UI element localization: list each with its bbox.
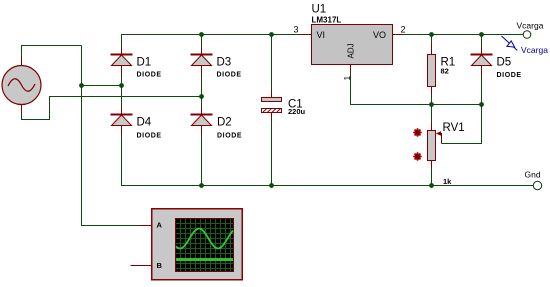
terminal Gnd <box>533 181 541 189</box>
svg-text:D1: D1 <box>137 57 152 69</box>
svg-text:DIODE: DIODE <box>137 72 162 79</box>
node junction (201.5,96.5) bridge right mid <box>199 94 204 99</box>
svg-text:RV1: RV1 <box>443 122 465 134</box>
svg-text:D2: D2 <box>217 117 232 129</box>
svg-text:D5: D5 <box>497 57 512 69</box>
wire: D1 bottom lead green <box>121 76 123 86</box>
svg-text:DIODE: DIODE <box>497 72 522 79</box>
svg-text:A: A <box>157 221 163 230</box>
wire: mid rail from node (81.5,85.5) to bridge left junction (121.5,85.5) <box>82 85 122 87</box>
wire: AC source bottom jog to D3/D2 junction (201.5,96.5) <box>22 97 202 120</box>
svg-text:ADJ: ADJ <box>347 43 356 58</box>
wire: D3 top lead green <box>201 35 203 47</box>
wire: RV1 top lead green <box>431 105 433 123</box>
diode D4 <box>111 107 133 135</box>
wire: C1 top lead green <box>271 35 273 90</box>
wire: R1 bottom lead green <box>431 95 433 105</box>
wire: D5 top lead green <box>481 35 483 47</box>
AC source V1 <box>2 57 41 113</box>
wire: D2 bottom lead green <box>201 135 203 186</box>
svg-text:U1: U1 <box>312 4 327 16</box>
node junction (271.5,185.5) C1 bottom <box>269 183 274 188</box>
node junction (431.5,185.5) RV1 bottom <box>429 183 434 188</box>
wire: top rail y=34.5 from D1 top corner to U1 VI pin <box>122 35 301 47</box>
wire: D3 bottom lead green <box>201 76 203 97</box>
svg-text:LM317L: LM317L <box>312 15 342 24</box>
svg-text:Vcarga: Vcarga <box>517 20 544 30</box>
resistor R1 <box>428 45 436 95</box>
node junction (481.5,104.5) D5 bottom / wiper <box>479 102 484 107</box>
wire: RV1 bottom lead green <box>431 169 433 186</box>
diode D2 <box>191 107 213 135</box>
capacitor C1 <box>262 90 282 121</box>
svg-text:Gnd: Gnd <box>525 170 541 180</box>
wire: bottom ground rail from D4 corner to Gnd terminal <box>122 135 534 186</box>
oscilloscope screen grid <box>176 219 233 271</box>
wire: C1 bottom lead green <box>271 121 273 186</box>
svg-text:VI: VI <box>317 30 326 40</box>
oscilloscope <box>131 209 243 280</box>
node junction (81.5,85.5) <box>79 83 84 88</box>
wire: R1 top lead green <box>431 35 433 45</box>
svg-text:2: 2 <box>401 25 406 35</box>
wire: D5 bottom lead green <box>481 76 483 105</box>
svg-text:D3: D3 <box>217 57 232 69</box>
terminal Vcarga (output) <box>523 31 531 39</box>
wire: ADJ rail from U1 pin1 down and right to D5 bottom <box>351 73 482 105</box>
svg-text:220u: 220u <box>288 107 306 116</box>
diode D1 <box>111 47 133 76</box>
svg-text:Vcarga: Vcarga <box>521 45 548 55</box>
diode D5 <box>471 47 493 76</box>
svg-text:VO: VO <box>373 30 386 40</box>
wire: RV1 wiper return to ADJ rail <box>442 105 482 144</box>
wire: AC source top lead loop to node column x=81.5 <box>22 46 82 58</box>
diode D3 <box>191 47 213 76</box>
svg-text:DIODE: DIODE <box>217 133 242 140</box>
potentiometer RV1 <box>428 123 442 169</box>
node junction (121.5,85.5) bridge left mid <box>119 83 124 88</box>
svg-text:D4: D4 <box>137 117 152 129</box>
pot actuator star upper <box>414 129 421 136</box>
wire: D4 top lead green <box>121 86 123 107</box>
svg-text:3: 3 <box>294 25 299 35</box>
node junction (201.5,34.5) D3 top <box>199 32 204 37</box>
svg-text:DIODE: DIODE <box>217 72 242 79</box>
svg-text:1k: 1k <box>443 177 452 186</box>
wire: vertical from top loop down through node (81.5,85.5) to oscilloscope A <box>82 46 140 226</box>
node junction (201.5,185.5) D2 bottom <box>199 183 204 188</box>
wire: VO rail from U1 to Vcarga terminal <box>403 34 524 36</box>
regulator U1 LM317L <box>301 25 403 73</box>
pot actuator star lower <box>414 153 421 160</box>
node junction (431.5,104.5) R1 bottom / RV1 top <box>429 102 434 107</box>
node junction (481.5,34.5) D5 top <box>479 32 484 37</box>
oscilloscope channel A trace (sine) <box>176 229 233 249</box>
svg-text:1: 1 <box>342 76 352 81</box>
svg-text:B: B <box>157 261 163 270</box>
voltage probe Vcarga <box>502 36 518 50</box>
svg-text:DIODE: DIODE <box>137 133 162 140</box>
wire: D2 top lead green <box>201 97 203 107</box>
svg-text:82: 82 <box>441 67 449 76</box>
node junction (431.5,34.5) R1 top <box>429 32 434 37</box>
oscilloscope channel B trace (flat line) <box>176 258 233 261</box>
node junction (271.5,34.5) C1 top <box>269 32 274 37</box>
